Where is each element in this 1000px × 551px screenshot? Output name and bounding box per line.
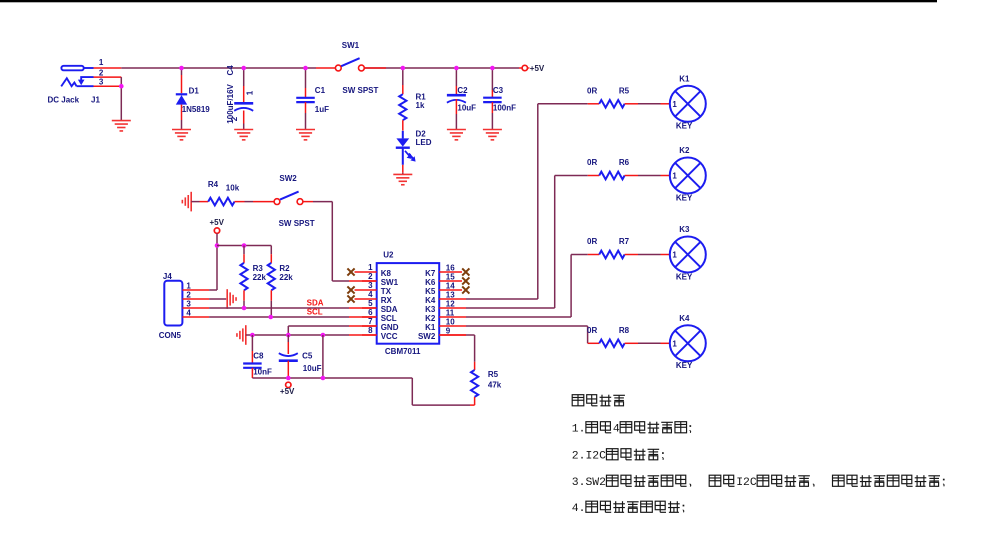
svg-text:U2: U2: [383, 251, 394, 260]
svg-text:3: 3: [99, 78, 104, 87]
svg-text:4: 4: [186, 308, 191, 317]
svg-text:1: 1: [672, 100, 677, 109]
wire VCC drop to +5V line: [322, 335, 324, 378]
capacitor C2 10uF electrolytic: [455, 68, 457, 86]
node rail-C4: [241, 66, 246, 71]
pin 3 of J4: [182, 307, 209, 309]
power port +5V bottom: [286, 382, 291, 387]
pin 8 VCC of U2: [362, 334, 377, 336]
svg-text:CON5: CON5: [159, 331, 182, 340]
svg-text:0R: 0R: [587, 326, 597, 335]
svg-text:KEY: KEY: [676, 122, 693, 131]
pin 12 K3 of U2: [439, 307, 466, 309]
wire SCL net: [209, 316, 349, 318]
svg-text:10nF: 10nF: [253, 368, 272, 377]
text note 3: 3.SW2端口为高电平，选择I2C接口通信，为低选择串口通信；: [572, 475, 945, 489]
wire SW2 to U2 pin2 SW1: [303, 201, 313, 203]
svg-text:VCC: VCC: [381, 332, 398, 341]
wire U2 pin9 SW2 to R5: [439, 334, 466, 336]
svg-text:1: 1: [672, 340, 677, 349]
ground left of R4: [182, 192, 191, 212]
svg-text:K1: K1: [679, 75, 690, 84]
svg-text:DC Jack: DC Jack: [48, 96, 80, 105]
svg-text:0R: 0R: [587, 237, 597, 246]
resistor R8 0R: [588, 342, 600, 344]
svg-text:R5: R5: [619, 87, 630, 96]
svg-text:SW SPST: SW SPST: [279, 219, 315, 228]
svg-text:1uF: 1uF: [315, 105, 329, 114]
svg-text:LED: LED: [416, 138, 432, 147]
no-connect X pin3: [347, 286, 354, 293]
resistor R5 0R: [588, 103, 600, 105]
node SCL-R2: [268, 315, 273, 320]
pin 15 K6 of U2: [439, 280, 462, 282]
svg-text:1.: 1.: [572, 424, 586, 436]
svg-text:K3: K3: [679, 225, 690, 234]
svg-text:22k: 22k: [279, 273, 293, 282]
svg-text:KEY: KEY: [676, 193, 693, 202]
svg-text:22k: 22k: [253, 273, 267, 282]
svg-text:4: 4: [368, 290, 373, 299]
svg-text:C5: C5: [302, 352, 313, 361]
top border bar: [0, 0, 937, 2]
connector J1 DC Jack symbol: [61, 66, 93, 87]
wire R8 to K4: [638, 342, 661, 344]
svg-text:4.: 4.: [572, 503, 586, 515]
lamp K2 KEY touch pad: [670, 158, 706, 194]
pin 10 K1 of U2: [439, 325, 466, 327]
node +5V-C5: [286, 376, 291, 381]
svg-text:1N5819: 1N5819: [182, 105, 211, 114]
svg-text:K2: K2: [425, 314, 436, 323]
svg-text:SCL: SCL: [381, 314, 397, 323]
wire +5V line to R5 bottom: [411, 378, 413, 405]
svg-text:1k: 1k: [416, 101, 425, 110]
op-amp U2 CBM7011 touch controller IC: [377, 263, 440, 344]
ground rail left of C6: [237, 325, 246, 345]
svg-text:C4: C4: [226, 65, 235, 76]
svg-text:RX: RX: [381, 296, 393, 305]
wire R7 to K3: [638, 254, 661, 256]
pin 1 K8 of U2: [355, 271, 377, 273]
capacitor C4 100uF/16V electrolytic: [243, 68, 245, 86]
ground under J1: [112, 121, 131, 131]
svg-text:2: 2: [368, 272, 373, 281]
pin 7 GND of U2: [362, 325, 377, 327]
text note 2: 2.I2C方式通信；: [572, 449, 664, 463]
wire +5V top rail: [121, 67, 316, 69]
no-connect X pin14: [462, 286, 469, 293]
svg-text:SDA: SDA: [381, 305, 398, 314]
ground under C2: [447, 130, 466, 140]
connector J4 CON5: [164, 281, 182, 326]
svg-text:11: 11: [446, 309, 455, 318]
node rail-C3: [490, 66, 495, 71]
svg-text:K1: K1: [425, 323, 436, 332]
pin 1 of J4: [182, 289, 209, 291]
ground under D1: [172, 130, 191, 140]
node GND-C5: [286, 333, 291, 338]
node J1 pin3 junction: [119, 84, 124, 89]
pin 4 of J4: [182, 316, 209, 318]
svg-text:KEY: KEY: [676, 361, 693, 370]
node rail-R1: [401, 66, 406, 71]
svg-text:+5V: +5V: [280, 387, 295, 396]
svg-text:3.SW2: 3.SW2: [572, 477, 606, 489]
svg-text:K4: K4: [679, 314, 690, 323]
svg-text:R5: R5: [488, 370, 499, 379]
pin 2 of J4: [182, 298, 209, 300]
resistor R1 1k: [402, 68, 404, 85]
svg-text:R8: R8: [619, 326, 630, 335]
svg-text:1: 1: [368, 263, 373, 272]
svg-text:K5: K5: [425, 287, 436, 296]
pin 14 K5 of U2: [439, 289, 462, 291]
resistor R3 22k: [243, 246, 245, 255]
wire J1 pins 2-3 to ground: [120, 77, 122, 121]
svg-text:1: 1: [245, 90, 254, 95]
node rail-D1: [179, 66, 184, 71]
ground under C1: [296, 130, 315, 140]
wire GND pin7 drop: [349, 325, 377, 327]
wire +5V branch to R3 R2: [217, 245, 271, 247]
svg-text:1: 1: [672, 251, 677, 260]
pin 4 RX of U2: [355, 298, 377, 300]
svg-text:2: 2: [230, 116, 239, 121]
svg-text:0R: 0R: [587, 158, 597, 167]
svg-text:15: 15: [446, 273, 455, 282]
wire SDA net: [209, 307, 349, 309]
node SDA-R3: [242, 306, 247, 311]
svg-text:C2: C2: [457, 86, 468, 95]
switch SW2 SW SPST: [274, 199, 280, 205]
pin 16 K7 of U2: [439, 271, 462, 273]
wire R6 to K2: [638, 175, 661, 177]
no-connect X pin4: [347, 295, 354, 302]
svg-text:5: 5: [368, 299, 373, 308]
svg-text:1: 1: [672, 172, 677, 181]
capacitor C5 10uF electrolytic: [287, 335, 289, 342]
wire GND net line: [246, 334, 349, 336]
no-connect X pin16: [462, 268, 469, 275]
svg-text:C1: C1: [315, 86, 326, 95]
resistor R2 22k: [270, 254, 272, 263]
capacitor C3 100nF: [491, 68, 493, 90]
pin 11 K2 of U2: [439, 316, 466, 318]
svg-text:10k: 10k: [226, 183, 240, 192]
wire U2 pin12 to K2 row: [466, 307, 555, 309]
svg-text:1: 1: [186, 281, 191, 290]
ground under C4: [234, 130, 253, 140]
wire J4 pin2 to ground: [209, 298, 226, 300]
resistor R6 0R: [588, 175, 600, 177]
lamp K4 KEY touch pad: [670, 325, 706, 361]
svg-text:K6: K6: [425, 278, 436, 287]
ground at J4 pin2: [227, 289, 236, 309]
svg-text:D1: D1: [189, 86, 200, 95]
svg-text:KEY: KEY: [676, 272, 693, 281]
svg-text:4: 4: [613, 424, 620, 436]
svg-text:C3: C3: [493, 86, 504, 95]
wire U2 pin13 to K1 row: [466, 298, 538, 300]
node rail-C1: [303, 66, 308, 71]
no-connect X pin1: [347, 268, 354, 275]
svg-text:8: 8: [368, 326, 373, 335]
svg-text:SCL: SCL: [307, 307, 323, 316]
wire J4 pin1 to +5V rail: [209, 289, 217, 291]
wire U2 pin10 to K4 row: [466, 325, 588, 327]
svg-text:0R: 0R: [587, 87, 597, 96]
wire R4 to SW2: [245, 201, 254, 203]
node +5V branch: [215, 243, 220, 248]
svg-text:2.I2C: 2.I2C: [572, 451, 606, 463]
resistor R7 0R: [588, 254, 600, 256]
svg-text:3: 3: [368, 281, 373, 290]
svg-text:+5V: +5V: [530, 64, 545, 73]
svg-text:K3: K3: [425, 305, 436, 314]
pin 3 TX of U2: [355, 289, 377, 291]
svg-text:14: 14: [446, 282, 455, 291]
svg-text:+5V: +5V: [210, 218, 225, 227]
svg-text:2: 2: [99, 69, 104, 78]
capacitor C6 10nF: [251, 335, 253, 351]
lamp K3 KEY touch pad: [670, 237, 706, 273]
no-connect X pin15: [462, 277, 469, 284]
svg-text:I2C: I2C: [736, 477, 757, 489]
pin 3 of J1: [94, 85, 122, 87]
ground under D2: [393, 174, 412, 184]
svg-text:J1: J1: [91, 96, 100, 105]
LED D2: [402, 131, 404, 139]
diode D1 1N5819: [181, 68, 183, 75]
svg-text:J4: J4: [163, 272, 172, 281]
svg-text:GND: GND: [381, 323, 399, 332]
power port +5V top right: [519, 67, 522, 69]
svg-text:7: 7: [368, 317, 373, 326]
svg-text:R4: R4: [208, 180, 219, 189]
wire U2 pin11 to K3 row: [466, 316, 571, 318]
pin 5 SDA of U2: [362, 307, 377, 309]
svg-text:3: 3: [186, 299, 191, 308]
switch SW1 SW SPST: [316, 67, 335, 69]
svg-text:12: 12: [446, 300, 455, 309]
svg-text:1: 1: [99, 58, 104, 67]
svg-text:SW2: SW2: [418, 332, 436, 341]
pin 13 K4 of U2: [439, 298, 466, 300]
ground under C3: [483, 130, 502, 140]
svg-text:47k: 47k: [488, 381, 502, 390]
svg-text:R6: R6: [619, 158, 630, 167]
svg-text:K7: K7: [425, 269, 436, 278]
svg-text:K4: K4: [425, 296, 436, 305]
pin 9 SW2 of U2: [439, 334, 466, 336]
svg-text:R7: R7: [619, 237, 630, 246]
text heading: 应用说明: [572, 395, 625, 406]
svg-text:SW2: SW2: [279, 174, 297, 183]
svg-text:K8: K8: [381, 269, 392, 278]
svg-text:2: 2: [186, 290, 191, 299]
pin 2 SW1 of U2: [362, 280, 377, 282]
resistor R5 47k: [474, 362, 476, 370]
svg-text:SW1: SW1: [381, 278, 399, 287]
svg-text:10uF: 10uF: [457, 104, 476, 113]
node +5V-VCCdrop: [321, 376, 326, 381]
wire R5 to K1: [638, 103, 661, 105]
svg-text:100nF: 100nF: [493, 104, 516, 113]
wire +5V bottom line: [251, 368, 253, 378]
svg-text:R1: R1: [416, 93, 427, 102]
svg-text:6: 6: [368, 308, 373, 317]
svg-text:TX: TX: [381, 287, 392, 296]
resistor R4 10k: [191, 201, 199, 203]
node branch-R3: [242, 243, 247, 248]
svg-text:C8: C8: [253, 352, 264, 361]
svg-text:K2: K2: [679, 146, 690, 155]
node GND-VCC-drop: [321, 333, 326, 338]
svg-text:16: 16: [446, 264, 455, 273]
pin 1 of J1: [94, 67, 122, 69]
node GND-C6: [250, 333, 255, 338]
capacitor C1 1uF: [305, 68, 307, 88]
text note 1: 1.采用4个触摸按键；: [572, 422, 691, 436]
lamp K1 KEY touch pad: [670, 86, 706, 122]
text note 4: 4.不用的接口悬空；: [572, 501, 685, 515]
svg-text:SW SPST: SW SPST: [342, 86, 378, 95]
svg-text:13: 13: [446, 291, 455, 300]
svg-text:CBM7011: CBM7011: [385, 347, 421, 356]
pin 6 SCL of U2: [362, 316, 377, 318]
svg-text:10uF: 10uF: [303, 364, 322, 373]
node rail-C2: [454, 66, 459, 71]
wire +5V to J4 pin1: [216, 233, 218, 290]
svg-text:10: 10: [446, 318, 455, 327]
svg-text:SW1: SW1: [342, 41, 360, 50]
pin 2 of J1: [94, 76, 122, 78]
